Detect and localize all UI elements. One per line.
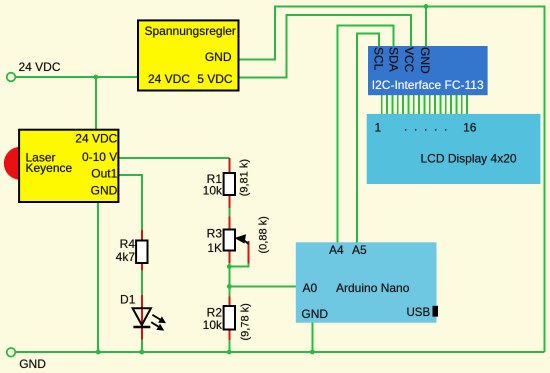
svg-text:(9,78 k): (9,78 k)	[240, 303, 252, 340]
svg-text:A0: A0	[303, 281, 318, 295]
svg-text:1K: 1K	[207, 241, 222, 255]
LED D1	[120, 292, 166, 330]
wire 24VDC to Laser	[95, 77, 97, 130]
svg-text:Keyence: Keyence	[26, 161, 73, 175]
LCD display module	[367, 114, 541, 184]
svg-text:24 VDC: 24 VDC	[19, 60, 61, 74]
svg-text:16: 16	[463, 121, 477, 135]
svg-text:D1: D1	[120, 292, 136, 306]
svg-text:10k: 10k	[203, 184, 223, 198]
svg-text:GND: GND	[418, 47, 432, 74]
svg-text:10k: 10k	[203, 318, 223, 332]
wire red R4 top lead	[141, 230, 143, 241]
USB connector	[433, 306, 439, 317]
LED triangle	[133, 308, 151, 325]
wire red R1 bottom lead	[228, 195, 230, 208]
LED light arrow 1	[152, 315, 161, 320]
svg-text:SCL: SCL	[372, 47, 386, 71]
svg-text:GND: GND	[205, 50, 232, 64]
resistor R1	[224, 173, 235, 195]
terminal 24VDC	[7, 73, 16, 82]
wire Spannungsregler GND to top bus	[239, 6, 545, 352]
wire I2C GND pin drop	[425, 6, 427, 46]
svg-text:USB: USB	[407, 307, 431, 319]
wire Laser GND down	[97, 202, 99, 352]
wire red wiper lead	[248, 241, 250, 264]
LED light arrow 2	[151, 322, 159, 327]
svg-text:. . . . .: . . . . .	[404, 120, 447, 134]
svg-text:Spannungsregler: Spannungsregler	[145, 24, 236, 38]
wire red R2 bottom lead	[228, 330, 230, 341]
wire 24VDC rail	[16, 76, 139, 78]
wire A0	[229, 285, 295, 287]
svg-text:1: 1	[375, 121, 382, 135]
wire wiper loop	[229, 264, 248, 267]
wire Arduino GND down	[311, 323, 313, 352]
svg-text:Arduino Nano: Arduino Nano	[336, 281, 410, 295]
wire red D1 leads	[141, 295, 143, 340]
wire R4 to D1	[141, 271, 143, 296]
resistor R2	[224, 306, 235, 330]
svg-text:24 VDC: 24 VDC	[75, 131, 117, 145]
wire Out1 to R4	[119, 175, 142, 230]
wire R1 to R3	[228, 208, 230, 217]
potentiometer R3	[224, 230, 235, 251]
terminal GND	[7, 348, 16, 357]
svg-text:LCD Display 4x20: LCD Display 4x20	[421, 152, 517, 166]
resistor R4	[136, 241, 147, 264]
svg-text:0-10 V: 0-10 V	[82, 150, 117, 164]
svg-text:24 VDC: 24 VDC	[148, 72, 190, 86]
wire 0-10V to R1	[119, 157, 230, 159]
wire D1 to rail	[141, 340, 143, 353]
svg-text:GND: GND	[301, 307, 328, 321]
pins I2C to LCD	[382, 95, 467, 114]
wire A4 to SDA	[337, 25, 393, 242]
wire red R3 top lead	[228, 217, 230, 230]
wire A5 to SCL	[357, 34, 379, 243]
Arduino Nano module	[296, 242, 437, 322]
LED cathode bar	[133, 326, 150, 328]
wire R2 to rail	[228, 340, 230, 352]
svg-text:I2C-Interface FC-113: I2C-Interface FC-113	[372, 78, 484, 92]
svg-text:R3: R3	[207, 227, 223, 241]
svg-text:A4: A4	[329, 243, 344, 257]
wire red R1 top lead	[228, 158, 230, 173]
svg-text:VCC: VCC	[402, 47, 416, 73]
svg-text:GND: GND	[91, 183, 118, 197]
voltage regulator U1 Spannungsregler box	[138, 20, 239, 90]
svg-text:Out1: Out1	[91, 166, 117, 180]
svg-text:5 VDC: 5 VDC	[197, 72, 233, 86]
wiper arrow R3	[235, 234, 249, 244]
svg-text:GND: GND	[19, 357, 46, 371]
wire GND bottom rail	[16, 351, 545, 353]
wire red R3 bottom lead	[228, 251, 230, 264]
laser sensor box Laser Keyence	[19, 130, 118, 202]
svg-text:4k7: 4k7	[116, 250, 136, 264]
svg-text:(9,81 k): (9,81 k)	[239, 159, 251, 196]
I2C interface module U2	[368, 46, 488, 95]
wire R3 to R2 segment	[228, 263, 230, 297]
wire red R2 top lead	[228, 297, 230, 307]
svg-text:(0,88 k): (0,88 k)	[258, 216, 270, 253]
svg-text:A5: A5	[352, 243, 367, 257]
laser lens (red circle)	[4, 147, 37, 180]
wire 5VDC to I2C VCC	[239, 15, 412, 77]
red wire segments	[142, 158, 249, 340]
svg-text:R4: R4	[120, 237, 136, 251]
wire red R4 bottom lead	[141, 263, 143, 271]
svg-text:SDA: SDA	[386, 47, 400, 72]
